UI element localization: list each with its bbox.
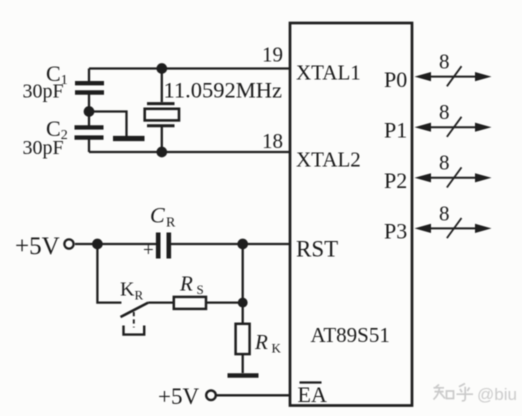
junction node at RS / RK xyxy=(239,299,247,307)
junction node between C1 and C2 xyxy=(85,107,93,115)
EA overline xyxy=(300,381,322,383)
svg-text:19: 19 xyxy=(262,43,283,67)
wire EA net xyxy=(217,394,291,396)
junction node on XTAL1 wire at crystal xyxy=(158,64,166,72)
bus arrow P3 xyxy=(415,218,492,238)
switch KR push button bracket xyxy=(124,326,145,335)
svg-text:R: R xyxy=(179,272,193,296)
svg-text:R: R xyxy=(166,216,176,231)
bus arrow P0 xyxy=(415,66,492,86)
svg-text:S: S xyxy=(197,282,204,297)
svg-text:EA: EA xyxy=(298,382,327,407)
ground (oscillator section) xyxy=(113,136,145,141)
bus arrow P1 xyxy=(415,117,492,137)
svg-text:+: + xyxy=(143,240,154,261)
svg-text:8: 8 xyxy=(439,201,450,225)
svg-text:P3: P3 xyxy=(384,219,407,244)
svg-text:+5V: +5V xyxy=(158,384,199,409)
switch KR blade xyxy=(121,303,149,317)
wire RST net: terminal to CR xyxy=(75,243,156,245)
resistor RK xyxy=(236,324,250,354)
switch KR actuator dashed link xyxy=(133,312,135,328)
IC U1 AT89S51 body xyxy=(290,23,412,406)
wire: left branch down to switch KR xyxy=(97,244,121,303)
svg-text:P2: P2 xyxy=(384,168,407,193)
svg-text:RST: RST xyxy=(296,237,338,262)
svg-text:8: 8 xyxy=(439,151,450,175)
svg-text:11.0592MHz: 11.0592MHz xyxy=(164,78,283,103)
capacitor CR (polarized) xyxy=(158,233,169,259)
svg-text:C: C xyxy=(150,203,165,228)
svg-text:@biu: @biu xyxy=(477,385,517,404)
svg-text:18: 18 xyxy=(262,129,283,153)
wire XTAL2 net (pin 18) xyxy=(89,151,290,153)
junction node left (+5V branch) xyxy=(93,240,101,248)
bus arrow P2 xyxy=(415,167,492,187)
ground (RK) xyxy=(228,373,259,377)
svg-text:30pF: 30pF xyxy=(23,137,64,159)
wire RST net: CR to IC RST pin xyxy=(171,243,290,245)
svg-text:KR: KR xyxy=(120,279,143,303)
+5V terminal circle (EA) xyxy=(206,391,216,401)
svg-text:30pF: 30pF xyxy=(23,81,64,103)
svg-text:8: 8 xyxy=(439,100,450,124)
svg-text:AT89S51: AT89S51 xyxy=(311,323,390,347)
capacitor C2 xyxy=(75,127,104,152)
svg-text:R: R xyxy=(254,330,268,354)
wire: RK to ground xyxy=(242,354,244,373)
wire XTAL1 net (pin 19) xyxy=(89,67,290,69)
resistor RS xyxy=(174,297,206,309)
+5V terminal circle (reset) xyxy=(64,239,73,248)
svg-text:+5V: +5V xyxy=(15,233,60,260)
wire: switch to RS xyxy=(148,301,174,303)
wire: RS to RST node column xyxy=(206,301,243,303)
svg-text:K: K xyxy=(272,341,282,356)
svg-text:P1: P1 xyxy=(384,117,407,142)
svg-text:XTAL1: XTAL1 xyxy=(296,61,361,85)
watermark 知乎 @biu xyxy=(434,384,474,401)
svg-text:P0: P0 xyxy=(384,67,407,92)
wire from C1/C2 node to ground xyxy=(89,112,127,137)
crystal Y1 11.0592MHz xyxy=(145,69,179,153)
junction node right (RST node) xyxy=(239,240,247,248)
svg-text:XTAL2: XTAL2 xyxy=(296,148,361,172)
capacitor C1 xyxy=(75,69,104,126)
junction node on XTAL2 wire at crystal xyxy=(158,148,166,156)
svg-text:8: 8 xyxy=(439,50,450,74)
wire: RST node down to RK xyxy=(242,244,244,324)
